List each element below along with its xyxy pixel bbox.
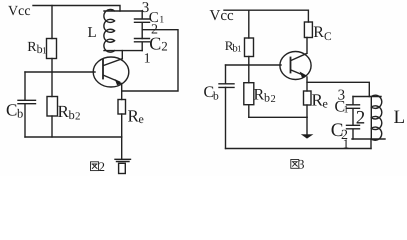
wire tank top [353, 96, 381, 98]
wire Rb1 branch from rail [51, 6, 53, 39]
wire Rb2 branch [248, 65, 250, 83]
wire base line [25, 71, 95, 73]
label C2 (fig3) [331, 120, 348, 143]
wire tank bottom [352, 138, 385, 140]
label Rc [313, 24, 332, 43]
label L [88, 25, 97, 41]
node 1 label [343, 136, 350, 151]
label Cb (fig3) [204, 84, 220, 103]
svg-text:2: 2 [99, 159, 106, 174]
svg-text:2: 2 [271, 94, 276, 105]
svg-text:3: 3 [298, 157, 305, 172]
resistor Rb1 [245, 38, 254, 57]
resistor Rb1 [47, 39, 57, 59]
svg-text:e: e [323, 97, 328, 111]
svg-text:b: b [69, 108, 75, 122]
ground [121, 137, 123, 159]
svg-text:L: L [88, 25, 97, 41]
svg-text:b: b [213, 91, 219, 103]
svg-text:2: 2 [161, 39, 168, 54]
label Rb2 [58, 102, 81, 123]
capacitor C2 [135, 39, 150, 51]
wire Rb1 branch [248, 10, 250, 38]
svg-text:L: L [394, 107, 406, 128]
resistor Re [118, 100, 126, 115]
resistor Rb2 [47, 97, 58, 117]
wire emitter to tank [307, 82, 369, 96]
node Vcc label [210, 8, 234, 24]
wire node2 feedback [122, 30, 178, 91]
node 3 label [338, 88, 346, 104]
wire Rb2 branch [51, 72, 53, 97]
label C2 [149, 34, 168, 54]
label Rb1 (fig3) [225, 38, 242, 54]
transistor Q1 [93, 57, 129, 87]
inductor L coil [371, 95, 382, 140]
wire Cb to bottom rail [24, 104, 26, 137]
svg-text:b: b [264, 91, 270, 105]
wire Re to ground wire [306, 105, 308, 117]
wire Rb1 to base line [51, 59, 53, 73]
wire base line [226, 64, 282, 66]
svg-text:3: 3 [142, 0, 150, 16]
label Re (fig3) [312, 91, 328, 111]
svg-text:e: e [139, 112, 144, 126]
wire emitter down [121, 84, 123, 100]
svg-text:Vcc: Vcc [8, 4, 31, 19]
svg-text:1: 1 [42, 47, 47, 57]
wire Cb branch [24, 72, 26, 100]
capacitor C1 [347, 97, 360, 126]
node 2 label [151, 23, 158, 38]
inductor L coil [104, 9, 142, 52]
capacitor C2 [347, 125, 360, 139]
label Re [128, 107, 144, 127]
wire top rail Vcc [33, 6, 120, 12]
wire top rail [224, 10, 308, 22]
node 3 label [142, 0, 150, 16]
node 1 label [144, 51, 151, 66]
wire emitter junction [306, 77, 308, 91]
svg-text:1: 1 [144, 51, 151, 66]
transistor Q2 [280, 52, 311, 80]
node 2 label [356, 108, 366, 129]
label Cb [6, 101, 23, 121]
caption 图2 [91, 162, 99, 171]
svg-text:1: 1 [237, 44, 242, 54]
svg-text:C: C [6, 101, 17, 120]
svg-text:1: 1 [159, 15, 164, 26]
ground arrow [306, 117, 308, 134]
svg-text:R: R [254, 87, 265, 104]
wire tank bottom [104, 50, 142, 52]
wire Rb2 to bottom rail [51, 116, 53, 137]
caption 图3 [291, 160, 299, 169]
label C1 (fig3) [335, 99, 349, 116]
wire bottom rail [226, 148, 372, 150]
wire Rb1 to base [248, 57, 250, 66]
svg-text:3: 3 [338, 88, 346, 104]
label Rb1 [27, 40, 47, 57]
svg-text:2: 2 [75, 111, 81, 123]
label Rb2 (fig3) [254, 87, 276, 106]
wire Re to rail [121, 114, 123, 137]
svg-text:R: R [313, 24, 324, 41]
capacitor Cb [219, 84, 234, 88]
svg-text:1: 1 [344, 105, 349, 116]
wire ground net [249, 116, 307, 118]
capacitor C1 [135, 11, 150, 39]
wire Cb to bottom rail [225, 87, 227, 148]
wire tank to bottom rail [370, 139, 372, 149]
capacitor Cb [18, 100, 36, 103]
resistor Re [304, 91, 312, 105]
resistor Rc [304, 22, 312, 38]
label L (fig3) [394, 107, 406, 128]
wire Cb branch [225, 65, 227, 84]
svg-text:C: C [324, 31, 332, 43]
wire Rb2 down to ground wire [248, 105, 250, 118]
wire bottom rail [25, 136, 122, 138]
label C1 [149, 10, 165, 26]
node Vcc label [8, 4, 31, 19]
resistor Rb2 [244, 83, 254, 105]
svg-text:b: b [17, 107, 23, 121]
